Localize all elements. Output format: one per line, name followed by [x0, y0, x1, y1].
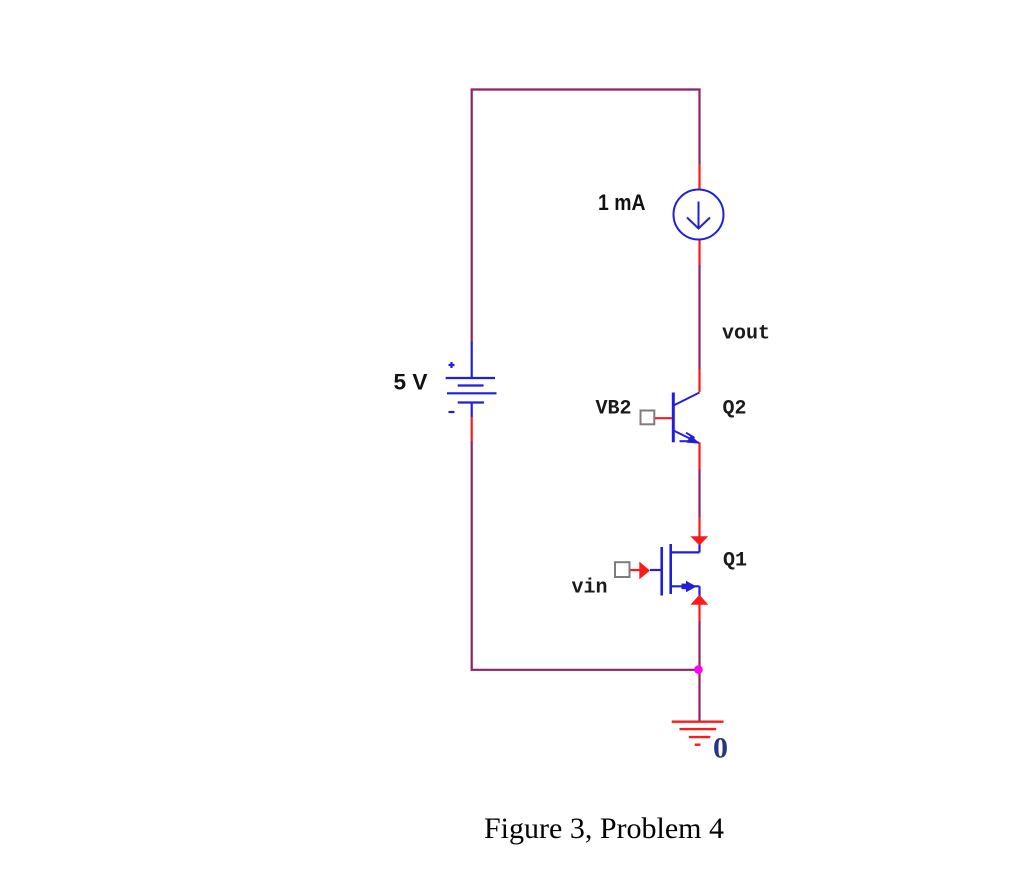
svg-text:Q2: Q2 [723, 398, 747, 421]
svg-text:5 V: 5 V [394, 370, 428, 395]
svg-text:0: 0 [713, 732, 728, 765]
svg-text:vin: vin [572, 577, 608, 600]
svg-text:Figure 3, Problem 4: Figure 3, Problem 4 [484, 812, 724, 845]
svg-text:Q1: Q1 [723, 550, 747, 573]
svg-text:vout: vout [722, 322, 770, 345]
svg-text:1 mA: 1 mA [598, 190, 646, 215]
svg-text:VB2: VB2 [596, 397, 632, 420]
